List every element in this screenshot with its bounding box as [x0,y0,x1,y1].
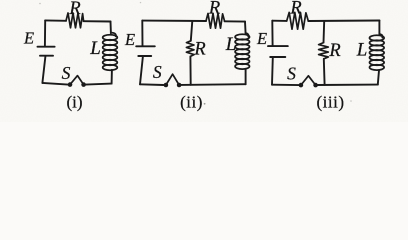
svg-text:L: L [356,40,368,61]
wire (i) right upper [110,22,112,34]
svg-text:E: E [124,30,135,49]
wire (iii) top-right segment [308,20,379,23]
resistor R1 zigzag (i) [66,13,84,28]
speck bottom right [350,100,352,102]
wire (iii) top-left segment [272,20,286,22]
svg-text:R: R [193,40,205,60]
wire (i) coil top hook [111,33,116,37]
wire (iii) right upper [378,21,380,35]
switch S2 (ii) [164,74,182,87]
inductor L2 coil (ii) [235,34,249,69]
svg-text:S: S [153,62,162,82]
resistor R2 zigzag top (ii) [206,14,225,29]
svg-text:R: R [289,0,301,19]
wire (iii) right lower [378,70,379,84]
svg-text:E: E [23,28,34,47]
wire (iii) coil top hook [379,34,382,38]
wire (i) bottom-right segment [86,84,112,85]
wire (iii) left upper [271,21,273,46]
wire (i) left lower [42,56,45,83]
resistor R4 zigzag top (iii) [287,12,309,29]
wire (i) left upper [44,20,46,45]
wire (i) right lower [111,70,113,84]
svg-text:L: L [225,34,237,55]
battery E1 (i) [38,47,55,56]
svg-text:(ii): (ii) [180,92,203,111]
wire (ii) bottom-right segment [181,83,246,86]
switch S1 (i) [68,76,86,87]
wire (ii) middle branch lower [189,56,191,84]
resistor R3 vertical zigzag (ii) [186,41,194,57]
wire (iii) middle branch lower [323,59,326,85]
wire (ii) left upper [141,21,143,46]
battery E3 (iii) [268,46,288,57]
wire (i) top-left segment [45,19,66,21]
battery E2 (ii) [136,46,155,56]
wire (ii) top-right segment [225,20,245,22]
inductor L1 coil (i) [103,35,118,70]
speck near (ii) label [204,103,206,105]
inductor L3 coil (iii) [370,35,385,70]
wire (ii) left lower [140,56,143,84]
wire (ii) right upper [244,22,247,34]
wire (iii) left lower [271,57,274,84]
svg-text:R: R [328,41,340,61]
wire (ii) coil top hook [246,33,249,37]
switch S3 (iii) [299,76,318,88]
svg-text:R: R [68,0,80,19]
svg-text:(i): (i) [66,92,82,111]
svg-text:S: S [62,63,71,83]
speck top mid [140,2,141,3]
wire (ii) middle branch upper [191,21,193,41]
wire (iii) bottom-right segment [318,84,378,86]
wire (ii) top-left segment [142,20,206,22]
svg-text:(iii): (iii) [317,92,345,111]
svg-text:R: R [208,0,220,19]
wire (iii) middle branch upper [323,21,326,43]
wire (iii) bottom-left segment [272,84,299,86]
wire (ii) bottom-left segment [140,83,164,86]
wire (ii) right lower [245,69,247,84]
wire (i) bottom-left segment [42,83,68,85]
svg-text:E: E [256,29,267,48]
svg-text:S: S [287,64,296,84]
resistor R5 vertical zigzag (iii) [319,43,329,59]
wire (i) top-right segment [84,20,111,22]
svg-text:L: L [89,38,101,59]
speck top left [39,3,41,5]
